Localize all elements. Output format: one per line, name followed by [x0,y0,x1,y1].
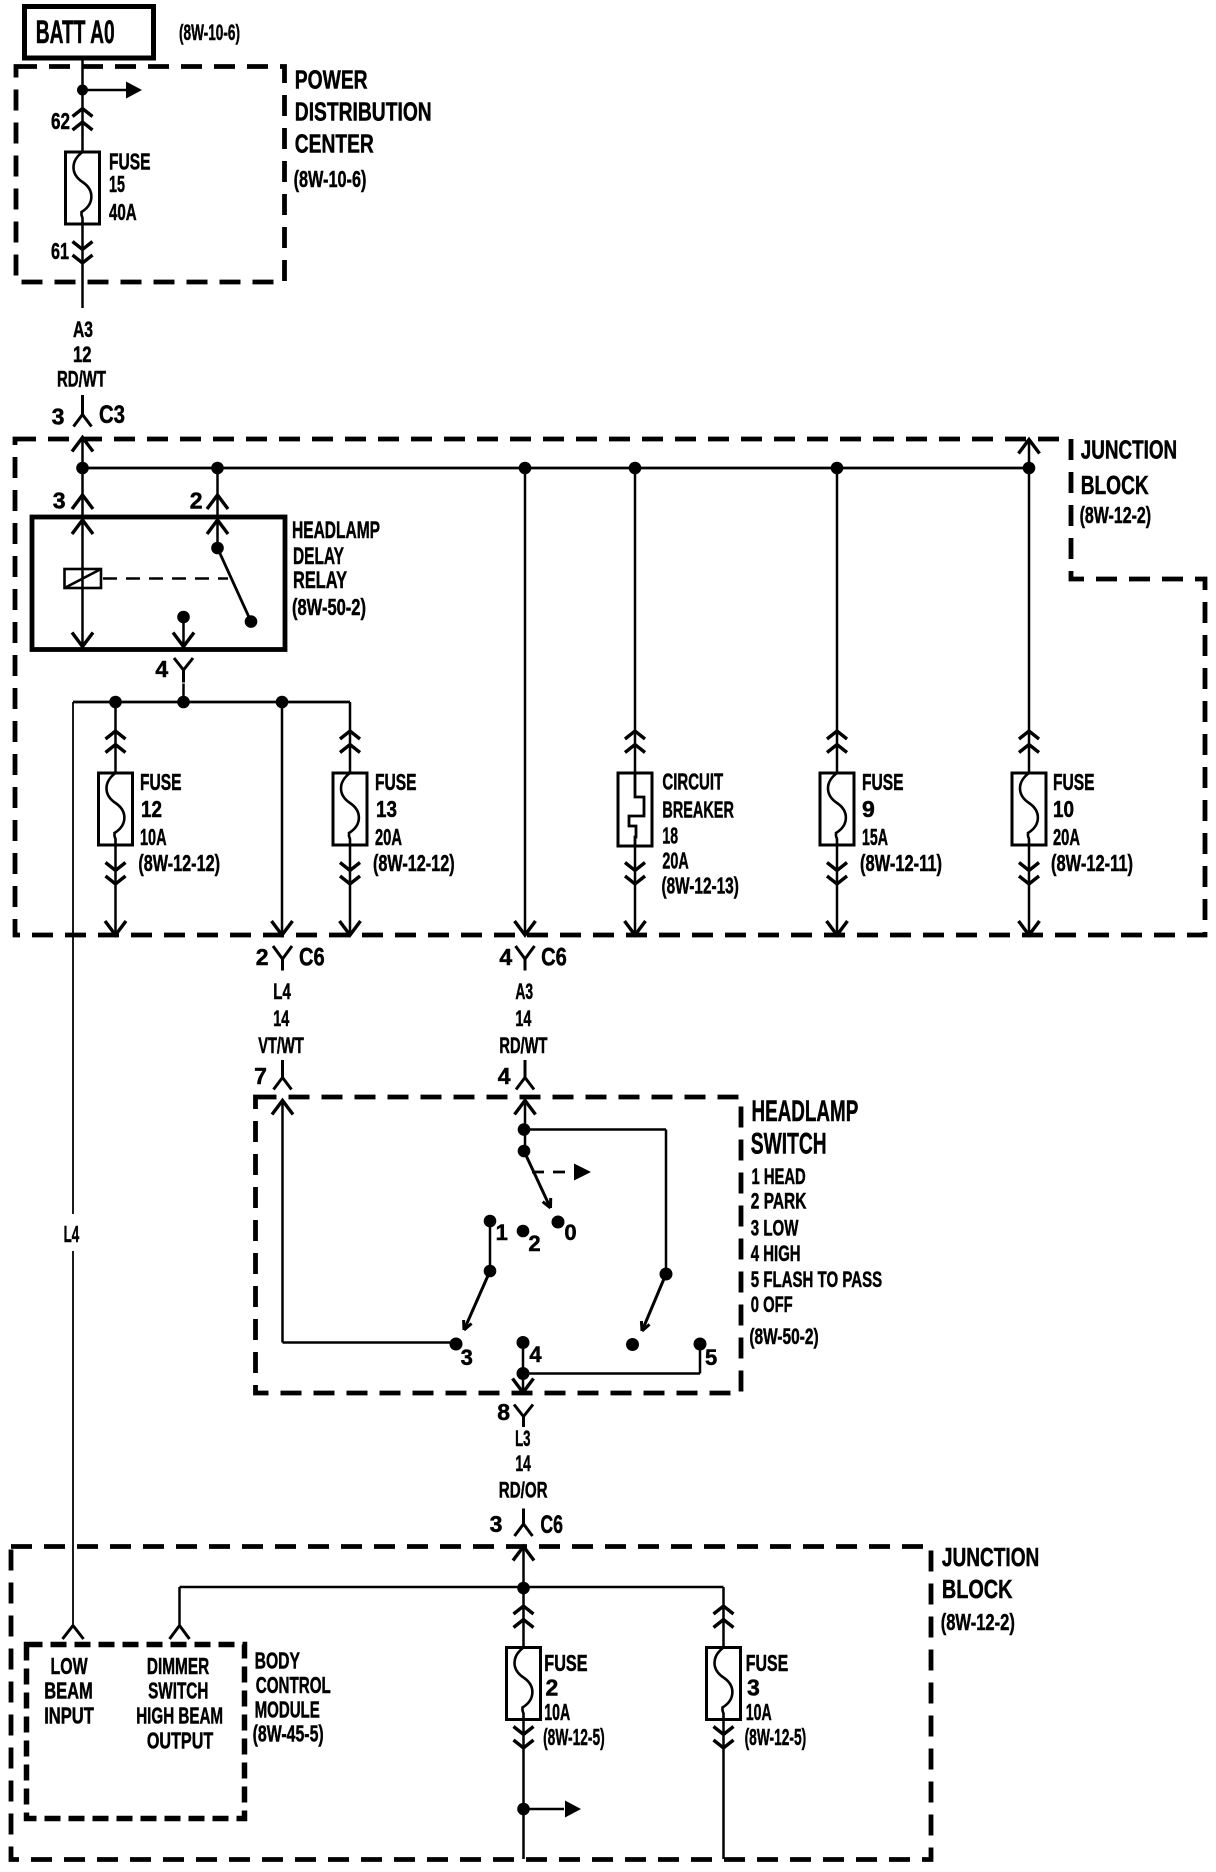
svg-text:SWITCH: SWITCH [751,1128,827,1161]
flash-to-pass contact node [660,1268,673,1281]
svg-text:(8W-10-6): (8W-10-6) [179,20,240,45]
switch output wire pin 8 [522,1374,525,1393]
svg-text:DISTRIBUTION: DISTRIBUTION [295,96,432,126]
svg-text:2: 2 [546,1674,559,1700]
svg-text:BREAKER: BREAKER [662,796,734,822]
svg-text:(8W-12-11): (8W-12-11) [860,850,942,876]
fuse 12 output wire to border [114,845,117,935]
fuse F12 10A symbol [99,773,133,845]
headlamp delay relay box [32,517,285,650]
svg-text:RD/WT: RD/WT [57,366,106,391]
svg-text:L4: L4 [273,979,291,1004]
fuse 9 branch wire [836,468,839,773]
switch pin 7 wire inside box [272,1101,293,1115]
svg-text:0: 0 [564,1220,576,1245]
svg-text:(8W-12-12): (8W-12-12) [138,850,220,876]
svg-text:13: 13 [376,796,397,822]
relay pin 2 internal wire [207,520,228,534]
relay coil [65,569,102,588]
relay actuation dashed link [103,577,228,580]
svg-text:C6: C6 [541,943,567,971]
headlamp switch dashed box [256,1097,742,1393]
svg-text:1 HEAD: 1 HEAD [752,1164,806,1189]
svg-text:BLOCK: BLOCK [942,1574,1013,1604]
svg-text:(8W-12-5): (8W-12-5) [745,1724,807,1750]
svg-text:DIMMER: DIMMER [147,1653,210,1679]
fuse 13 branch wire [349,702,352,773]
svg-text:4: 4 [499,944,512,970]
circuit breaker 18 branch wire [634,468,637,773]
arrow to other circuits from fuse 2 [524,1808,565,1811]
svg-text:C3: C3 [99,401,125,429]
svg-text:A3: A3 [515,979,533,1004]
svg-text:14: 14 [273,1006,289,1031]
svg-text:18: 18 [662,823,678,849]
svg-text:3: 3 [461,1345,473,1370]
wire from contact 1 to low beam blade [489,1221,492,1271]
wire A3 12 RD/WT from PDC [81,224,84,308]
fuse F9 15A symbol [820,773,854,845]
fuse 10 output wire to border [1028,845,1031,935]
body control module dashed box [27,1645,245,1819]
svg-text:(8W-12-12): (8W-12-12) [373,850,455,876]
fuse 2 branch wire [522,1588,525,1648]
svg-text:20A: 20A [375,824,402,850]
svg-text:HEADLAMP: HEADLAMP [292,517,380,544]
dimmer switch connector female half [170,1626,190,1640]
node bus at fuse 10 [1023,462,1036,475]
svg-text:(8W-12-11): (8W-12-11) [1051,850,1133,876]
contact 4 node [517,1336,530,1349]
svg-text:(8W-45-5): (8W-45-5) [253,1721,324,1747]
fuse 9 output wire to border [836,845,839,935]
relay switch blade [218,548,252,622]
fused feed sub-bus wire [73,701,350,704]
low beam input connector female half [63,1626,84,1640]
node sub-bus at connector C6 pin 2 [276,696,289,709]
svg-text:(8W-12-2): (8W-12-2) [1080,502,1152,528]
wire from output node to contact 5 [523,1372,700,1375]
switch rotor blade pointing at position 0 [524,1151,551,1208]
wire from contact 4 to output node [522,1343,525,1374]
relay output contact node pin 4 [177,611,190,624]
svg-text:FUSE: FUSE [375,769,417,795]
node sub-bus at relay pin 4 [177,696,190,709]
svg-text:10A: 10A [544,1699,570,1725]
node bus at relay pin 2 [211,462,224,475]
circuit breaker output wire to border [634,846,637,935]
svg-text:(8W-12-5): (8W-12-5) [543,1724,605,1750]
fuse F2 10A symbol [507,1648,541,1720]
svg-text:RELAY: RELAY [293,567,347,594]
bus wire inside junction block [83,467,1030,470]
svg-text:(8W-12-13): (8W-12-13) [662,872,739,898]
switch rotor pivot node [518,1145,531,1158]
battery feed box BATT A0 [25,7,154,59]
relay blade end node [245,615,258,628]
svg-text:INPUT: INPUT [44,1703,94,1729]
svg-text:JUNCTION: JUNCTION [942,1542,1039,1572]
svg-text:L4: L4 [64,1221,80,1247]
circuit breaker CB18 20A symbol [618,773,652,846]
svg-text:5 FLASH TO PASS: 5 FLASH TO PASS [751,1267,882,1292]
node bus at fuse 9 [831,462,844,475]
connector C6 pin 3 male half entering lower junction block [513,1547,534,1561]
svg-text:(8W-10-6): (8W-10-6) [294,166,367,192]
contact 0 node [552,1216,565,1229]
connector C3 pin 3 male half entering junction block [72,438,93,452]
svg-text:20A: 20A [662,847,688,873]
svg-text:4: 4 [498,1063,511,1089]
svg-text:FUSE: FUSE [862,769,904,795]
svg-text:20A: 20A [1053,824,1080,850]
node splice on battery feed [77,85,88,96]
flash-to-pass lower contact node [626,1338,639,1351]
svg-text:CENTER: CENTER [295,129,374,159]
wire L4 low beam feed down left side [72,702,74,1214]
svg-text:BEAM: BEAM [44,1678,93,1704]
node bus at circuit breaker 18 [629,462,642,475]
svg-text:SWITCH: SWITCH [148,1678,208,1704]
wire to connector C6 pin 2 [281,702,284,935]
svg-text:L3: L3 [515,1426,530,1451]
svg-text:CIRCUIT: CIRCUIT [662,768,723,794]
svg-text:10: 10 [1053,796,1074,822]
svg-text:7: 7 [254,1063,267,1089]
wire L4 continues to body control module [72,1251,74,1626]
svg-text:POWER: POWER [295,64,368,94]
svg-text:JUNCTION: JUNCTION [1081,435,1178,465]
svg-text:RD/OR: RD/OR [499,1478,548,1503]
svg-text:FUSE: FUSE [1053,769,1095,795]
fuse 2 output wire [522,1720,525,1860]
fuse 13 output wire to border [349,845,352,935]
lower junction block dashed box [11,1547,931,1860]
node fuse 2 output splice [517,1803,530,1816]
svg-text:10A: 10A [140,824,167,850]
node splice in lower junction block [517,1582,530,1595]
svg-text:C6: C6 [299,943,325,971]
rotation direction dashed arrow [532,1171,574,1174]
svg-text:2: 2 [256,944,269,970]
svg-text:4: 4 [529,1342,542,1367]
svg-text:62: 62 [51,108,70,134]
relay common contact node [211,542,224,555]
fuse F3 10A symbol [707,1648,741,1720]
svg-text:3: 3 [490,1511,503,1537]
svg-text:LOW: LOW [51,1653,88,1679]
svg-text:5: 5 [705,1345,717,1370]
wire to dimmer switch high beam output [178,1587,181,1626]
svg-text:10A: 10A [746,1699,772,1725]
svg-text:2: 2 [190,488,203,514]
svg-text:BATT A0: BATT A0 [36,14,115,50]
svg-text:(8W-50-2): (8W-50-2) [292,594,366,620]
power feed wire from battery BATT A0 [81,58,84,152]
fuse 3 output wire [722,1720,725,1860]
node sub-bus at fuse 12 [109,696,122,709]
bus wire in lower junction block [180,1586,724,1589]
svg-text:1: 1 [496,1220,508,1245]
svg-text:14: 14 [515,1451,531,1476]
svg-text:FUSE: FUSE [544,1650,587,1676]
svg-text:3: 3 [52,404,65,430]
svg-text:61: 61 [51,238,69,264]
svg-text:12: 12 [141,796,162,822]
power distribution center dashed box [16,67,285,283]
switch feed branch to flash-to-pass contact [524,1128,666,1131]
wire to fuse 3 branch [722,1587,725,1648]
svg-text:0 OFF: 0 OFF [751,1292,793,1317]
svg-text:RD/WT: RD/WT [499,1033,547,1058]
switch pin 4 feed wire inside box [515,1101,536,1115]
fuse F15 40A symbol [66,152,100,224]
svg-text:A3: A3 [73,317,93,342]
svg-text:VT/WT: VT/WT [258,1033,304,1058]
svg-text:15: 15 [109,171,125,197]
switch feed node [518,1123,531,1136]
svg-text:FUSE: FUSE [746,1650,788,1676]
node bus at headlamp switch feed [519,462,532,475]
svg-text:3: 3 [747,1674,760,1700]
contact 1 node [484,1215,497,1228]
svg-text:HEADLAMP: HEADLAMP [752,1095,859,1128]
fuse 12 branch wire [114,702,117,773]
svg-text:MODULE: MODULE [255,1697,320,1723]
svg-text:BLOCK: BLOCK [1081,470,1149,500]
svg-text:(8W-50-2): (8W-50-2) [749,1324,818,1349]
svg-text:14: 14 [515,1006,531,1031]
svg-text:9: 9 [862,796,875,822]
junction block dashed outline [15,439,1205,935]
svg-text:(8W-12-2): (8W-12-2) [941,1609,1015,1635]
relay pin 3 internal wire through coil [72,520,93,534]
svg-text:12: 12 [73,342,92,367]
svg-text:DELAY: DELAY [293,543,344,570]
svg-text:3: 3 [53,488,66,514]
flash-to-pass blade [642,1274,666,1331]
fuse 10 branch wire with feed arrow up [1019,440,1040,454]
svg-text:BODY: BODY [255,1647,300,1673]
contact 3 node [450,1338,463,1351]
svg-text:FUSE: FUSE [140,769,182,795]
svg-text:CONTROL: CONTROL [256,1672,331,1698]
svg-text:15A: 15A [862,824,888,850]
svg-text:2 PARK: 2 PARK [751,1188,807,1213]
fuse F13 20A symbol [333,773,367,845]
svg-text:2: 2 [528,1231,540,1256]
fuse F10 20A symbol [1012,773,1046,845]
svg-text:3 LOW: 3 LOW [751,1216,799,1241]
contact 2 node [517,1225,530,1238]
svg-text:4 HIGH: 4 HIGH [751,1241,801,1266]
svg-text:40A: 40A [109,199,137,225]
arrow to other circuits [83,89,129,92]
svg-text:HIGH BEAM: HIGH BEAM [136,1703,223,1729]
svg-text:OUTPUT: OUTPUT [147,1727,213,1753]
low beam blade pointing at contact 3 [464,1271,490,1330]
contact 5 node [694,1338,707,1351]
node bus at C3 feed [76,462,89,475]
svg-text:4: 4 [155,656,168,682]
svg-text:8: 8 [497,1399,510,1425]
wire headlamp switch feed through junction block [524,468,527,935]
svg-text:C6: C6 [540,1511,563,1539]
